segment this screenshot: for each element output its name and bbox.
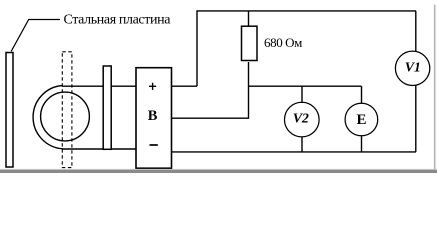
coil L outer winding arc [33,86,63,149]
svg-text:V1: V1 [405,61,421,76]
wire bottom bus [171,151,416,153]
wire B middle to resistor bottom [171,62,249,118]
wire meters bus [249,85,362,87]
wire coil top lead [62,85,136,87]
voltmeter V2 [285,102,320,137]
svg-text:680 Ом: 680 Ом [264,35,302,50]
battery B box [136,68,172,169]
leader line [11,20,60,52]
svg-text:Стальная пластина: Стальная пластина [64,13,172,28]
wire top bus [197,11,416,86]
svg-text:В: В [148,108,158,124]
source E [345,103,378,136]
wire B plus to top bus [171,85,197,87]
coil L inner turn circle [41,92,90,141]
battery minus sign [150,144,158,146]
wire coil bottom lead [62,148,136,150]
wire E branch vertical [361,86,363,152]
coil core plate [103,66,111,149]
wire V2 branch vertical [301,86,303,152]
wire resistor top stub [248,11,250,27]
battery plus sign [149,83,156,90]
window edge grey bottom bar (decorative) [0,169,437,170]
svg-text:E: E [357,112,367,128]
svg-text:V2: V2 [293,111,309,126]
steel plate [6,53,13,168]
wire V1 branch vertical [415,11,417,152]
window edge grey vertical (decorative) [434,5,436,170]
resistor R 680 Ом [242,26,258,60]
plate position dashed outline [62,52,72,168]
voltmeter V1 [395,51,429,85]
